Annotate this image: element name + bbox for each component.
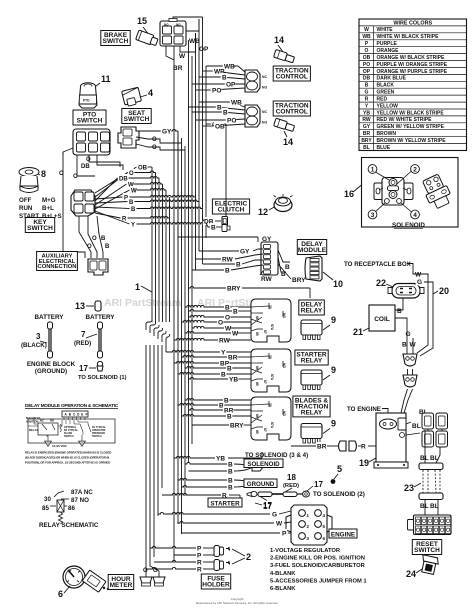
svg-text:SWITCH: SWITCH [77, 118, 103, 125]
svg-text:WB: WB [224, 63, 235, 70]
svg-text:17: 17 [79, 364, 88, 373]
copyright text [196, 597, 278, 605]
label 11 [92, 74, 111, 89]
svg-text:RW: RW [362, 117, 371, 123]
inline connector lower [403, 369, 417, 387]
svg-text:17: 17 [314, 480, 323, 489]
label 13 and fuse link [75, 301, 101, 311]
FUSE HOLDER label box [201, 574, 230, 589]
svg-text:G: G [365, 90, 369, 96]
svg-text:1-VOLTAGE REGULATOR: 1-VOLTAGE REGULATOR [270, 548, 341, 554]
svg-text:O: O [86, 157, 91, 163]
traction 2 wires WB B B PO OB [189, 98, 246, 130]
svg-text:BL: BL [420, 455, 429, 462]
svg-text:NO: NO [176, 23, 181, 27]
svg-text:87A: 87A [270, 324, 274, 331]
svg-text:OP: OP [363, 69, 371, 75]
svg-text:RELAY: RELAY [301, 308, 323, 315]
BL BL labels upper [420, 430, 440, 463]
STARTER label box [208, 498, 242, 508]
svg-text:(RED): (RED) [74, 340, 91, 347]
svg-text:R: R [365, 96, 369, 102]
svg-text:B: B [227, 365, 232, 372]
svg-text:W: W [276, 520, 283, 527]
svg-text:9: 9 [331, 365, 336, 375]
svg-text:PO: PO [227, 117, 236, 124]
svg-text:B: B [224, 397, 229, 404]
wire from brake connector top [173, 17, 203, 19]
RESET SWITCH label box [412, 540, 441, 555]
svg-text:O: O [152, 137, 157, 143]
delay relay outline [251, 299, 291, 342]
HOUR METER label box [108, 575, 134, 590]
svg-text:14: 14 [274, 35, 284, 45]
engine box [374, 413, 408, 468]
starter relay input wires [219, 348, 251, 383]
DELAY MODULE OPERATION & SCHEMATIC title [25, 403, 119, 409]
delay module schematic drawing [26, 411, 115, 448]
SEAT SWITCH label box [122, 109, 151, 124]
svg-text:BLACK: BLACK [377, 83, 395, 89]
starter relay icon [301, 370, 322, 390]
svg-text:87A: 87A [270, 374, 274, 381]
svg-text:DB: DB [363, 76, 371, 82]
label 21 [353, 327, 369, 337]
key switch icon [19, 168, 39, 193]
SOLENOID caption [392, 222, 425, 229]
svg-text:PTO: PTO [83, 99, 90, 103]
svg-text:GY: GY [162, 128, 172, 135]
svg-text:G: G [417, 279, 422, 286]
label 6 [58, 586, 70, 599]
svg-text:4: 4 [148, 88, 153, 98]
solenoid circled terminal numbers [368, 165, 419, 219]
svg-text:TO RECEPTACLE BOX: TO RECEPTACLE BOX [344, 261, 412, 268]
hour meter icon [63, 566, 109, 592]
svg-text:WB: WB [362, 34, 371, 40]
svg-text:4-BLANK: 4-BLANK [270, 571, 296, 577]
svg-text:BR: BR [363, 131, 371, 137]
svg-text:15: 15 [137, 16, 147, 26]
svg-text:SWITCH: SWITCH [124, 116, 150, 123]
svg-text:87 NO: 87 NO [71, 497, 89, 504]
BL BL labels lower [420, 500, 439, 516]
AUXILIARY ELECTRICAL CONNECTION label box [37, 252, 78, 271]
svg-text:87A NC: 87A NC [71, 489, 93, 496]
svg-text:(GROUND): (GROUND) [35, 368, 67, 375]
svg-text:RELAY: RELAY [301, 410, 323, 417]
svg-text:DELAY MODULE OPERATION & SCHEM: DELAY MODULE OPERATION & SCHEMATIC [25, 403, 119, 409]
svg-text:NO: NO [164, 23, 169, 27]
svg-text:TO SOLENOID (1): TO SOLENOID (1) [78, 375, 127, 381]
key switch connector [71, 190, 95, 216]
svg-text:7: 7 [81, 330, 86, 339]
svg-text:BRY: BRY [230, 422, 244, 429]
fuse wires P P R R [146, 544, 214, 573]
seat switch icon [122, 87, 142, 107]
svg-text:OB: OB [363, 55, 371, 61]
svg-text:9: 9 [331, 419, 336, 429]
svg-text:NO: NO [282, 363, 286, 368]
svg-text:BL: BL [412, 423, 421, 430]
svg-text:3: 3 [36, 332, 41, 341]
svg-text:NO: NO [262, 86, 267, 90]
starter relay label 9 [323, 365, 336, 380]
label 14 bottom [283, 131, 293, 147]
svg-text:O: O [129, 171, 134, 177]
svg-text:2: 2 [246, 552, 251, 562]
ELECTRIC CLUTCH label box [212, 199, 249, 214]
key wires O B O B to auxiliary [63, 216, 110, 258]
svg-text:RUN: RUN [19, 205, 33, 212]
delay relay label box [299, 300, 325, 315]
svg-text:B: B [217, 104, 222, 111]
svg-text:TO SOLENOID (3 & 4): TO SOLENOID (3 & 4) [245, 452, 308, 459]
delay connector wires [178, 236, 310, 298]
svg-text:17: 17 [263, 502, 272, 511]
svg-text:14: 14 [283, 137, 293, 147]
blades traction relay icon [301, 424, 322, 444]
svg-text:85: 85 [255, 382, 259, 386]
svg-text:10: 10 [333, 279, 343, 289]
svg-text:18: 18 [287, 473, 296, 482]
hour meter O G wires and connectors [140, 549, 165, 586]
relay schematic [39, 489, 99, 529]
svg-text:W: W [179, 53, 186, 60]
svg-text:MODULE: MODULE [298, 247, 327, 254]
PTO connector 6-pin [73, 129, 110, 155]
PTO switch icon [79, 83, 97, 108]
svg-text:DARK BLUE: DARK BLUE [377, 76, 407, 82]
svg-text:WHITE: WHITE [377, 27, 394, 33]
svg-text:GY: GY [363, 124, 371, 130]
svg-text:DB: DB [81, 164, 90, 170]
svg-text:COIL: COIL [374, 316, 390, 323]
svg-text:1: 1 [135, 282, 140, 292]
reset switch icon [419, 555, 439, 575]
engine connector wires G W P [158, 510, 291, 537]
svg-text:PO: PO [363, 62, 370, 68]
wire WB from brake connector [186, 19, 200, 45]
auxiliary connector icon [88, 259, 108, 275]
svg-text:RELAY: RELAY [301, 358, 323, 365]
svg-text:O: O [225, 314, 230, 321]
svg-text:O: O [73, 174, 78, 180]
svg-text:BR: BR [317, 443, 327, 450]
svg-text:GREEN: GREEN [377, 90, 395, 96]
svg-text:P: P [124, 195, 128, 201]
blades traction relay label box [293, 396, 330, 417]
svg-text:21: 21 [353, 327, 363, 337]
svg-text:Y: Y [131, 222, 135, 228]
svg-text:8: 8 [41, 169, 46, 179]
svg-text:RW: RW [261, 276, 273, 283]
svg-text:B: B [211, 224, 216, 231]
svg-text:R: R [361, 443, 366, 450]
svg-text:10-90 VDC: 10-90 VDC [52, 444, 68, 448]
svg-text:ORANGE W/ BLACK STRIPE: ORANGE W/ BLACK STRIPE [377, 55, 445, 61]
svg-text:ENGINE BLOCK: ENGINE BLOCK [27, 361, 76, 368]
label 19 [359, 458, 376, 468]
label 4 [140, 88, 153, 98]
svg-text:30: 30 [44, 496, 51, 503]
svg-text:G: G [272, 511, 277, 518]
KEY SWITCH label box [25, 218, 54, 233]
svg-text:W: W [364, 27, 369, 33]
svg-text:11: 11 [101, 74, 111, 84]
svg-text:BROWN W/ YELLOW STRIPE: BROWN W/ YELLOW STRIPE [377, 138, 447, 144]
label 2 fuse [232, 549, 251, 564]
solenoid face icon [374, 178, 413, 206]
svg-text:M+G: M+G [42, 197, 56, 204]
svg-text:B: B [105, 244, 110, 250]
svg-text:B: B [131, 207, 136, 213]
big multi-pin connector [408, 515, 452, 535]
svg-text:22: 22 [376, 278, 386, 288]
svg-text:RELAY SCHEMATIC: RELAY SCHEMATIC [39, 522, 99, 529]
blades traction relay input wires [218, 396, 251, 429]
svg-text:NC: NC [262, 110, 267, 114]
svg-text:BLUE: BLUE [377, 145, 391, 151]
svg-text:16: 16 [344, 189, 354, 199]
svg-text:YB: YB [216, 455, 225, 462]
svg-text:30: 30 [268, 355, 272, 359]
solenoid detail box [362, 158, 459, 228]
solenoid 3d icon [420, 173, 454, 211]
wire BR from brake connector [166, 46, 183, 72]
svg-text:B: B [101, 236, 106, 242]
svg-text:BL: BL [363, 145, 370, 151]
svg-text:SWITCH: SWITCH [414, 547, 440, 554]
cable bar lower [419, 493, 443, 500]
delay relay input wires [217, 303, 251, 344]
ENGINE BLOCK GROUND text [27, 361, 76, 375]
relay1 feeder wires [174, 305, 232, 340]
key wires OB O DB W W P B B R Y to bus [95, 163, 206, 228]
PTO wires O DB O O [86, 155, 120, 167]
svg-text:BRY: BRY [227, 285, 241, 292]
brake switch icon [136, 30, 159, 47]
svg-text:5-ACCESSORIES JUMPER FROM 1: 5-ACCESSORIES JUMPER FROM 1 [270, 578, 367, 584]
svg-text:P: P [282, 530, 287, 537]
svg-text:BROWN: BROWN [377, 131, 397, 137]
svg-text:O: O [218, 319, 223, 326]
svg-text:6: 6 [58, 589, 63, 599]
svg-text:B: B [228, 484, 233, 491]
svg-text:RELAY: RELAY [29, 428, 38, 432]
fuse icons [214, 546, 230, 571]
receptacle wires W G and label 20 [413, 268, 449, 356]
svg-text:SWITCH: SWITCH [64, 435, 74, 438]
svg-text:23: 23 [404, 483, 414, 493]
svg-text:RED W/ WHITE STRIPE: RED W/ WHITE STRIPE [377, 117, 433, 123]
svg-text:WHITE W/ BLACK STRIPE: WHITE W/ BLACK STRIPE [377, 34, 440, 40]
battery cable 3 black [21, 322, 53, 358]
svg-text:2: 2 [413, 167, 417, 174]
svg-text:WB: WB [189, 38, 200, 45]
TRACTION CONTROL box 1 [273, 66, 310, 81]
battery cable 7 red [74, 322, 103, 358]
svg-text:BRY: BRY [361, 138, 372, 144]
svg-text:YB: YB [229, 376, 238, 383]
wire W from brake connector [179, 33, 196, 60]
label 1 harness [135, 282, 152, 292]
svg-text:BL: BL [430, 503, 439, 510]
svg-text:W: W [131, 188, 137, 194]
svg-text:NC: NC [262, 75, 267, 79]
delay relay label 9 [323, 315, 336, 330]
key positions text [19, 197, 62, 220]
svg-text:O: O [152, 145, 157, 151]
svg-text:85: 85 [255, 332, 259, 336]
svg-text:87A: 87A [270, 422, 274, 429]
traction plug icon top [274, 49, 295, 63]
label 22 [376, 278, 393, 288]
label 17 starter [255, 502, 272, 511]
engine connector [286, 505, 332, 545]
svg-text:86: 86 [68, 505, 75, 512]
svg-text:B: B [236, 261, 241, 268]
COIL box [369, 305, 395, 331]
SOLENOID label box [244, 459, 283, 468]
svg-text:87: 87 [263, 330, 267, 334]
cable bar upper [419, 463, 443, 470]
svg-text:87: 87 [263, 428, 267, 432]
battery cable 18 assembly [247, 480, 365, 510]
svg-text:SOLENOID: SOLENOID [247, 461, 280, 468]
svg-text:ORANGE W/ PURPLE STRIPE: ORANGE W/ PURPLE STRIPE [377, 69, 448, 75]
svg-text:IGNITION: IGNITION [26, 420, 38, 424]
relay2 feeder wires [166, 350, 228, 379]
svg-text:B: B [365, 83, 369, 89]
svg-text:6-BLANK: 6-BLANK [270, 586, 296, 592]
TO RECEPTACLE BOX text [344, 261, 413, 268]
svg-text:NO: NO [262, 121, 267, 125]
traction control connector 1 [245, 70, 267, 92]
svg-text:E: E [81, 413, 83, 417]
label 24 [406, 569, 422, 579]
svg-text:TO SOLENOID (2): TO SOLENOID (2) [313, 491, 365, 498]
svg-text:B: B [227, 413, 232, 420]
inline connector upper [403, 354, 417, 366]
svg-text:YELLOW: YELLOW [377, 103, 399, 109]
clutch wires OB DB B [203, 120, 231, 232]
label 12 [258, 206, 276, 217]
blades traction relay outline [251, 397, 291, 440]
small connectors right of engine [422, 413, 448, 447]
svg-text:ORANGE: ORANGE [377, 48, 400, 54]
svg-text:O: O [92, 236, 97, 242]
traction plug icon bottom [274, 118, 295, 132]
svg-text:F: F [86, 413, 88, 417]
svg-text:PURPLE W/ ORANGE STRIPE: PURPLE W/ ORANGE STRIPE [377, 62, 448, 68]
BR wire to connector pair [291, 441, 376, 451]
svg-text:13: 13 [75, 301, 85, 311]
svg-text:RW: RW [219, 337, 231, 344]
svg-text:B: B [228, 468, 233, 475]
svg-text:OP: OP [226, 81, 236, 88]
svg-text:GY: GY [262, 236, 272, 243]
traction 1 wires WB WB B OP PO [192, 62, 245, 94]
starter relay outline [251, 349, 291, 392]
label 5 and stud [331, 464, 342, 484]
svg-text:B+L: B+L [42, 205, 54, 212]
svg-text:Reproduced by ARI Network Serv: Reproduced by ARI Network Services, Inc.… [196, 601, 278, 605]
relay3 feeder wires [178, 398, 229, 425]
cable 23 dashed [423, 470, 440, 493]
bus S-curve transitions [146, 319, 170, 345]
svg-text:85: 85 [42, 505, 49, 512]
svg-text:NC: NC [40, 419, 44, 423]
svg-text:B: B [397, 308, 402, 315]
svg-text:OP: OP [199, 46, 209, 53]
svg-text:CONTROL: CONTROL [276, 109, 308, 116]
svg-text:Y: Y [221, 349, 226, 356]
svg-text:5: 5 [337, 464, 342, 474]
svg-text:PO: PO [212, 87, 221, 94]
svg-text:BR: BR [173, 65, 183, 72]
svg-text:GROUND: GROUND [247, 481, 275, 488]
svg-text:CLUTCH: CLUTCH [218, 207, 245, 214]
brake switch connector [160, 19, 186, 47]
svg-text:1: 1 [371, 167, 375, 174]
svg-text:3-FUEL SOLENOID/CARBURETOR: 3-FUEL SOLENOID/CARBURETOR [270, 563, 366, 569]
svg-text:YB: YB [363, 110, 370, 116]
svg-text:87: 87 [263, 380, 267, 384]
wires down to engine [401, 389, 413, 413]
label 14 top [274, 35, 284, 52]
svg-text:SWITCH: SWITCH [27, 225, 53, 232]
svg-text:POSITION), OR FOR APPROX. 1/2: POSITION), OR FOR APPROX. 1/2 SECOND AFT… [25, 461, 110, 465]
svg-text:W: W [415, 271, 422, 278]
svg-text:STARTER: STARTER [210, 501, 240, 508]
label 15 [137, 16, 150, 36]
svg-text:WB: WB [231, 99, 242, 106]
svg-text:SWITCH: SWITCH [103, 38, 129, 45]
label 23 [404, 483, 421, 493]
svg-text:BL: BL [420, 503, 429, 510]
receptacle icon [388, 284, 424, 299]
svg-text:HOLDER: HOLDER [202, 582, 230, 589]
PTO SWITCH label box [73, 110, 106, 125]
svg-text:OFF: OFF [19, 197, 32, 204]
svg-text:ENGINE: ENGINE [331, 532, 355, 539]
svg-text:B: B [225, 267, 230, 274]
svg-text:RED: RED [377, 96, 388, 102]
svg-text:W: W [410, 342, 417, 349]
svg-text:19: 19 [359, 458, 369, 468]
coil wires B G BW [395, 298, 417, 354]
legend text [270, 548, 367, 592]
label 10 [323, 272, 343, 289]
svg-text:W: W [232, 330, 239, 337]
delay module 6-pin connector [261, 242, 278, 275]
wire OP label [192, 46, 209, 58]
svg-text:BATTERY: BATTERY [85, 314, 115, 321]
delay relay icon [301, 320, 322, 340]
svg-text:(BLADE DISENGAGED) OR WHEN B1: (BLADE DISENGAGED) OR WHEN B1 IS CLOSED … [25, 456, 109, 460]
svg-text:TO ENGINE: TO ENGINE [347, 406, 381, 413]
bottom-left bus verticals [146, 345, 166, 566]
svg-text:9: 9 [331, 315, 336, 325]
svg-text:BR: BR [228, 354, 238, 361]
svg-text:OB: OB [215, 123, 225, 130]
wire colors table [359, 19, 467, 151]
svg-text:2-ENGINE KILL OR POS. IGNITION: 2-ENGINE KILL OR POS. IGNITION [270, 556, 365, 562]
svg-text:GY: GY [240, 248, 250, 255]
svg-text:CONTROL: CONTROL [276, 74, 308, 81]
svg-text:G: G [406, 331, 411, 338]
